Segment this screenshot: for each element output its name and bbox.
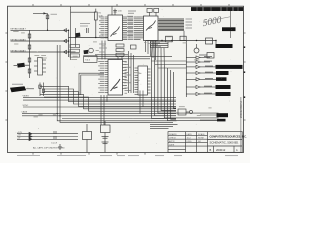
buffer row 3 + net label (inverse) [186,65,215,68]
wire top rail [71,11,96,13]
svg-text:SCHEMATIC, 5000 BD.: SCHEMATIC, 5000 BD. [210,141,240,145]
wire to reset label [215,41,217,47]
resistor pack RN2 grid [39,83,45,97]
svg-text:NONE: NONE [198,138,204,140]
buffer row 4 + net label (inverse) [186,71,216,74]
power input filter [101,121,111,153]
U1 right pins ladder [123,17,141,40]
net label AUX (inverse) [217,119,226,122]
zone dots right border (decorative) [244,46,246,98]
svg-text:DWG: DWG [187,141,192,143]
scan noise (decorative) [16,8,237,144]
IC U4 [138,66,148,95]
U4 pins [135,68,151,94]
inductor L1 (dark body) [14,63,30,68]
capacitor stack C10-C12 [116,44,124,60]
wire U1 top to rail [111,7,113,15]
wire drops below U4 [140,91,143,114]
diode row 1 [17,132,78,135]
fan from option table to bus [152,48,165,66]
U2 left pins [141,17,144,38]
border zone ticks (frame) [5,4,245,155]
IC U9 [84,56,98,63]
wire vertical join of input rows [68,30,70,57]
address bus staircase [44,86,176,111]
svg-text:+12V: +12V [17,132,23,134]
svg-text:DATE: DATE [187,133,193,136]
U1 left pin labels [99,17,104,38]
svg-text:KEYBD DATA 7: KEYBD DATA 7 [11,28,27,31]
net label SPKR (inverse) [217,113,229,117]
resistor R3 on left bus [28,45,31,49]
crystal Y1 (dark body) [10,86,34,92]
svg-text:+5V: +5V [17,135,21,137]
U3 left pins [105,62,109,93]
ground symbol [58,144,62,149]
crystal value label [12,83,23,85]
capacitor C2 [87,28,89,33]
pull-up network RN1 [94,9,97,38]
junction dots on gate rail [161,40,162,41]
buffer row 6 + net label (inverse) [186,85,215,88]
connector K1 input row 1 [11,29,69,31]
svg-text:COMPUTER RESOURCES, INC.: COMPUTER RESOURCES, INC. [210,135,248,138]
regulator VR1 [83,124,92,152]
connector K1 input row 3 [11,51,76,53]
wires above title block [150,125,178,129]
ROM U2 [144,16,159,41]
decoupling caps note [54,131,56,139]
wire node N1 [69,37,109,39]
buffer row 2 [186,60,210,63]
right buffer bus vertical [185,41,187,98]
long bus verticals center-left [57,45,176,122]
net label RESET (inverse) [216,44,233,48]
svg-text:200012: 200012 [216,148,226,152]
jumper W3 [70,54,80,57]
wire bus mid horizontals [84,55,172,59]
resistor R2 on left bus [28,34,31,38]
svg-text:CHECK: CHECK [169,138,177,140]
wire ribbon to rail [183,31,185,41]
IC U8 narrow [38,58,43,76]
RC pair above U2 [147,8,159,16]
C2 value label [80,24,90,27]
IC U14 small [131,45,137,49]
svg-text:CASS: CASS [22,111,28,114]
junction dots on input column [68,30,69,31]
svg-text:APPR: APPR [169,140,175,143]
net label PWR (inverse) [222,27,236,31]
inner border segment right [240,97,242,152]
title block [168,132,242,153]
wires to buffer bus [152,61,187,68]
U3 left pin labels [98,62,104,93]
IC U10 [166,36,173,42]
ribbon bus to expansion [158,18,184,31]
svg-text:SYNC: SYNC [23,105,29,107]
CPU U1 [108,15,123,41]
bus drops from U2 [146,41,156,61]
resistor R6 pull-up [46,14,49,31]
left bus vertical [29,30,31,78]
buffer net name labels [204,57,213,94]
diode row 3 [17,138,78,141]
transistor Q3 [194,48,199,53]
faint label ghosts (decorative) [13,32,211,117]
svg-text:SCALE: SCALE [198,133,205,136]
wire vertical V2 [75,28,77,47]
capacitor C30 at top [113,9,117,15]
IC U13 [207,53,214,59]
output jack cluster [178,109,193,115]
RAM U3 [108,60,123,96]
diode row 2 [17,135,78,138]
wire from banner to label [230,11,232,27]
junction dots on cassette pair [57,113,58,114]
wire pair cassette [22,114,176,116]
U1 ladder net labels [127,16,133,35]
IC U12 [206,38,213,44]
U3 right pins [123,62,127,89]
buffer row 7 + net label (inverse) [186,92,215,95]
bus tap triangles [64,29,67,54]
handwritten mark 5000 [201,14,224,29]
U1 left pins [105,17,109,38]
gate cluster top right: wire [146,40,216,42]
resistor R4 on left bus [28,58,31,62]
wire sync [23,106,176,108]
wire vertical V1 [70,7,72,60]
svg-text:NO: NO [198,141,201,143]
svg-text:KEYBD DATA 5: KEYBD DATA 5 [11,49,27,52]
bus verticals between U3 and U4 [129,51,134,93]
transistor Q1 (dark) [75,33,80,38]
buffer row 1 [186,56,210,59]
wire drops below U3 [101,95,107,125]
margin notes below border [17,155,238,157]
mini option table [151,42,169,48]
svg-text:DATE: DATE [169,143,175,146]
U2 bottom pin numbers [144,43,156,44]
net labels above ladder [128,11,136,13]
svg-text:200012 REV A: 200012 REV A [239,101,243,118]
wire pair video out [23,98,176,101]
net labels between U3 and U4 [125,62,132,93]
IC U11 [180,36,186,40]
shield box corner around RAM section [79,73,104,95]
svg-text:C1-C9: C1-C9 [51,143,58,145]
wire long horizontal H9 [62,118,176,120]
svg-text:KEYBD DATA 6: KEYBD DATA 6 [11,38,27,41]
wires U1 to U3 [102,41,105,60]
svg-text:B: B [210,148,212,152]
svg-text:VIDEO: VIDEO [23,96,30,98]
connector K1 input row 2 [11,40,69,42]
wire stubs to SPKR labels [200,115,217,120]
wire to R6 [33,12,48,14]
revision banner strip [191,7,243,11]
svg-text:74LS: 74LS [85,60,91,62]
jumper W2 [70,49,80,52]
wire below PWR label [230,31,232,38]
ribbon net labels [186,19,193,28]
data bus corner stack [152,58,222,121]
jumper W1 [70,45,80,48]
svg-text:DRAWN: DRAWN [169,133,177,136]
resistor R5 on left bus [28,69,31,73]
transistor Q2 (dark) + case [84,50,89,54]
buffer row 5 + net label (inverse) [186,78,216,81]
